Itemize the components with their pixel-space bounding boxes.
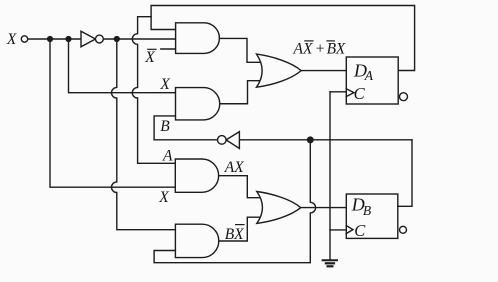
junction dot B node: [307, 136, 314, 143]
wire OR1 output to DA: [301, 70, 346, 72]
wire AND4 output to OR2 bottom input: [219, 217, 261, 241]
AND gate A1 (3-input, top): [176, 23, 220, 54]
DB complement output bubble: [400, 226, 407, 233]
D flip-flop DA box: [346, 57, 398, 104]
inverter G2 (B to Bbar, points left): output wire: [154, 139, 217, 141]
OR gate O2: [257, 192, 301, 224]
inverter G2 triangle: [226, 132, 239, 149]
svg-text:X: X: [158, 189, 169, 206]
wire feedback A branch to AND3 A input, hops at 39 and 92.7: [132, 17, 175, 164]
wire B stub into AND2: [154, 116, 175, 140]
AND gate A4 (B Xbar): [175, 224, 218, 257]
wire clock into DB C: [330, 229, 346, 231]
input terminal X: [21, 36, 27, 42]
junction dot 3: [114, 36, 120, 42]
svg-text:A: A: [364, 68, 374, 83]
svg-text:AX: AX: [224, 159, 244, 176]
AND gate A2 (Bbar X): [176, 88, 220, 120]
junction dot 1: [47, 36, 53, 42]
clock triangle DB: [346, 226, 353, 234]
wire feedback A: DA output to AND1 top input: [151, 6, 415, 71]
wire V1: X down to AND3 X input: [50, 39, 175, 187]
svg-text:AX: AX: [293, 41, 313, 58]
wire AND3 output to OR2 top input: [219, 176, 261, 198]
svg-text:X: X: [144, 49, 155, 66]
junction dot 2: [65, 36, 71, 42]
wire clock into DA C: [330, 91, 346, 93]
svg-text:C: C: [354, 221, 366, 240]
wire Xbar stub into AND1: [161, 48, 176, 50]
wire inverter output to AND1: [103, 38, 175, 40]
wire B: dot down to AND4 bottom input, hop at 207.6: [154, 140, 315, 263]
svg-text:X: X: [335, 41, 346, 58]
svg-text:B: B: [160, 118, 170, 135]
inverter G1 (X to Xbar): [81, 31, 96, 47]
OR gate O1: [257, 54, 302, 87]
DA complement output bubble: [400, 93, 408, 101]
D flip-flop DB box: [346, 194, 398, 238]
svg-text:X: X: [159, 76, 170, 93]
wire B line from DB feedback to inverter input: [239, 139, 412, 141]
svg-text:A: A: [162, 147, 173, 164]
wire AND2 output to OR1 bottom input: [220, 81, 261, 104]
wire clock vertical: [329, 92, 331, 260]
ground symbol (clock source): [323, 259, 337, 261]
wire OR2 output to DB: [301, 207, 347, 209]
wire V2: X down to AND2 X input: [69, 39, 176, 93]
svg-text:+: +: [315, 41, 325, 58]
wire X main horizontal: [28, 38, 81, 40]
svg-text:C: C: [354, 84, 366, 103]
svg-text:B: B: [363, 203, 371, 218]
wire V3: Xbar down to AND4 top input, hops at 92.7 and 187.2: [112, 39, 176, 230]
svg-text:X: X: [6, 31, 17, 48]
wire DB feedback to B line: [398, 140, 412, 207]
clock triangle DA: [346, 89, 354, 97]
AND gate A3 (AX): [175, 159, 218, 192]
inverter G2 bubble: [218, 136, 227, 145]
wire AND1 output to OR1 top input: [219, 38, 260, 62]
